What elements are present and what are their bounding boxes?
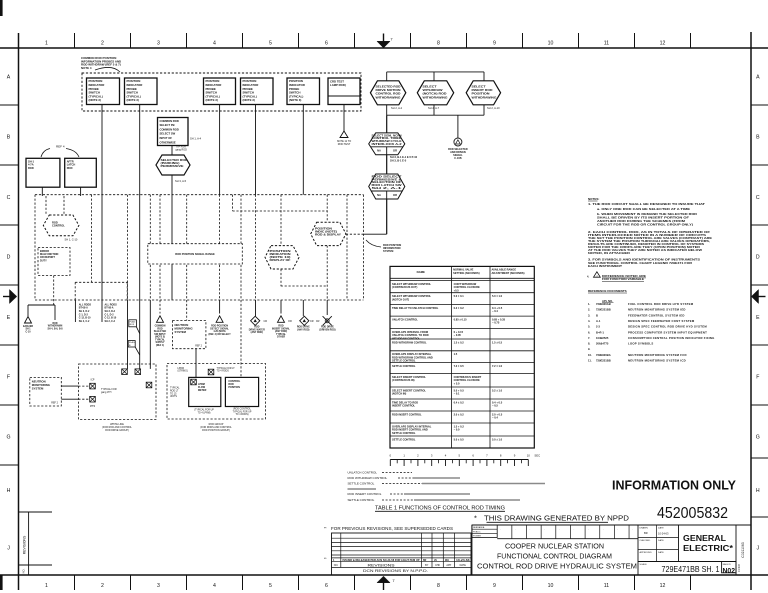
- svg-text:5.: 5.: [588, 325, 590, 329]
- svg-text:3: 3: [157, 41, 160, 47]
- svg-text:COOPER NUCLEAR STATION: COOPER NUCLEAR STATION: [505, 542, 604, 551]
- svg-text:B: B: [596, 313, 598, 317]
- svg-text:POSITION: POSITION: [472, 92, 490, 96]
- svg-text:(NOTE 3): (NOTE 3): [89, 98, 101, 102]
- svg-text:729E221BB: 729E221BB: [596, 359, 611, 363]
- svg-text:452005832: 452005832: [657, 505, 728, 522]
- svg-text:10: 10: [527, 454, 531, 458]
- svg-text:5: 5: [269, 41, 272, 47]
- svg-text:DCN REVISIONS BY N.P.P.D.: DCN REVISIONS BY N.P.P.D.: [363, 569, 428, 573]
- svg-text:LOOP SYMBOLS: LOOP SYMBOLS: [628, 342, 653, 346]
- svg-text:C0211063: C0211063: [741, 542, 745, 558]
- svg-text:NEUTRON MONITORING SYSTEM IED: NEUTRON MONITORING SYSTEM IED: [628, 308, 686, 312]
- svg-text:gang JTH: gang JTH: [101, 391, 112, 394]
- svg-text:WITHDRAWN: WITHDRAWN: [48, 325, 63, 328]
- svg-text:(ANY ROD): (ANY ROD): [297, 328, 309, 331]
- svg-text:G: G: [756, 435, 760, 441]
- svg-text:INTERLOCK A-2: INTERLOCK A-2: [372, 142, 403, 146]
- svg-text:0.85 ± 0.15: 0.85 ± 0.15: [454, 318, 468, 322]
- svg-text:SH 1: SH 1: [25, 329, 31, 331]
- svg-text:8: 8: [437, 583, 440, 589]
- svg-text:BR: BR: [423, 560, 427, 562]
- svg-text:N02: N02: [723, 568, 736, 575]
- svg-text:SYSTEM: SYSTEM: [175, 330, 187, 334]
- svg-text:+0.5: +0.5: [454, 288, 460, 292]
- svg-text:1: 1: [45, 583, 48, 589]
- svg-text:SETTLE CONTROL: SETTLE CONTROL: [392, 364, 416, 368]
- svg-text:FOR PREVIOUS REVISIONS, SEE SU: FOR PREVIOUS REVISIONS, SEE SUPERSEDED C…: [331, 526, 453, 531]
- svg-text:·: ·: [573, 528, 574, 531]
- svg-text:SYSTEM: SYSTEM: [383, 250, 393, 253]
- svg-text:2.0 ± 0.2: 2.0 ± 0.2: [454, 412, 465, 416]
- svg-text:·: ·: [515, 528, 516, 531]
- svg-text:CR: CR: [316, 320, 320, 323]
- svg-text:ELECTRIC*: ELECTRIC*: [683, 543, 734, 553]
- svg-text:(NOTCH IN): (NOTCH IN): [392, 392, 406, 396]
- svg-text:ISSUED & RELEASED PER ACN SO-2: ISSUED & RELEASED PER ACN SO-24-58 FOR L…: [343, 559, 420, 562]
- svg-text:(ANY ROD): (ANY ROD): [275, 330, 287, 333]
- svg-text:ROD DRIVE GROUP): ROD DRIVE GROUP): [105, 429, 129, 432]
- svg-text:REVISIONS: REVISIONS: [368, 563, 395, 567]
- svg-text:APP: APP: [446, 564, 451, 567]
- svg-text:OR: OR: [393, 193, 397, 197]
- svg-text:·: ·: [530, 528, 531, 531]
- svg-text:TYPICAL FOR LT: TYPICAL FOR LT: [217, 367, 236, 370]
- svg-text:SH 3, B-1 E-1 E-5 P-10: SH 3, B-1 E-1 E-5 P-10: [390, 155, 418, 159]
- svg-text:INSERT ROD: INSERT ROD: [472, 88, 493, 92]
- svg-text:CONTROL: CONTROL: [52, 224, 65, 228]
- svg-text:H: H: [7, 488, 11, 494]
- svg-text:NA: NA: [377, 193, 381, 197]
- svg-text:TIME DELAY TO UNLATCH CONTROL: TIME DELAY TO UNLATCH CONTROL: [392, 306, 439, 310]
- svg-text:5.0 ± 0.5: 5.0 ± 0.5: [454, 437, 465, 441]
- svg-text:5.0 ± 0.1: 5.0 ± 0.1: [454, 294, 465, 298]
- svg-text:SETTLE CONTROL: SETTLE CONTROL: [348, 498, 375, 502]
- svg-text:B: B: [7, 135, 11, 141]
- svg-text:ROD: ROD: [67, 166, 73, 170]
- svg-text:WITHDRAWING: WITHDRAWING: [472, 95, 497, 99]
- svg-text:SH 3, A-5: SH 3, A-5: [175, 179, 187, 183]
- svg-text:10.: 10.: [588, 353, 592, 357]
- svg-text:(TYPICAL FOR UP: (TYPICAL FOR UP: [194, 409, 214, 412]
- svg-text:DATE: DATE: [658, 539, 664, 542]
- svg-text:− 0.5: − 0.5: [492, 404, 498, 408]
- svg-text:PUBLIC: PUBLIC: [473, 531, 481, 533]
- svg-text:TYPICAL: TYPICAL: [170, 387, 180, 390]
- svg-text:4.: 4.: [587, 274, 589, 278]
- svg-text:12: 12: [660, 583, 666, 589]
- svg-text:POWER: POWER: [473, 536, 481, 538]
- svg-text:APPROVED: APPROVED: [640, 551, 653, 554]
- svg-text:PERMISSIVE: PERMISSIVE: [161, 165, 184, 168]
- svg-text:BOX: BOX: [130, 324, 135, 326]
- svg-text:6.: 6.: [588, 330, 590, 334]
- svg-text:TO 15: TO 15: [170, 393, 177, 395]
- svg-text:2: 2: [101, 41, 104, 47]
- svg-text:3: 3: [157, 583, 160, 589]
- svg-text:(ANY ROD): (ANY ROD): [251, 331, 263, 334]
- svg-text:SH 3, B-1 E-5: SH 3, B-1 E-5: [390, 158, 407, 162]
- svg-text:SELECTED: SELECTED: [154, 331, 167, 333]
- svg-text:1. THE ROD CIRCUIT SHALL BE D: 1. THE ROD CIRCUIT SHALL BE DESIGNED TO …: [588, 202, 705, 206]
- svg-text:B: B: [756, 135, 760, 141]
- svg-text:ROD DRIVE: ROD DRIVE: [321, 327, 334, 329]
- svg-text:EACH INSTRUMENT: EACH INSTRUMENT: [588, 264, 622, 268]
- svg-text:FUEL CONTROL ROD DRIVE HYD SYS: FUEL CONTROL ROD DRIVE HYD SYSTEM: [628, 302, 694, 306]
- svg-text:WITHDRAWING: WITHDRAWING: [376, 95, 401, 99]
- svg-text:4.: 4.: [588, 319, 590, 323]
- svg-text:SETTLE CONTROL: SETTLE CONTROL: [392, 437, 416, 441]
- svg-text:4-20 (NOTE: 4-20 (NOTE: [213, 330, 226, 333]
- svg-text:A: A: [7, 75, 11, 81]
- svg-text:DATE: DATE: [460, 564, 467, 567]
- svg-text:2-3: 2-3: [596, 325, 600, 329]
- svg-text:gang: gang: [90, 406, 96, 408]
- svg-text:COMMON ROD: COMMON ROD: [160, 119, 179, 123]
- svg-text:11: 11: [604, 583, 609, 589]
- svg-text:SH 1, C-10: SH 1, C-10: [65, 238, 78, 242]
- svg-text:729E900AB: 729E900AB: [596, 302, 611, 306]
- svg-text:a. ONLY ONE ROD CAN BE SELECT: a. ONLY ONE ROD CAN BE SELECTED AT A TIM…: [597, 207, 690, 211]
- svg-text:DISPLAY OF: DISPLAY OF: [270, 259, 292, 262]
- svg-text:5.0 ± 1.0: 5.0 ± 1.0: [492, 437, 503, 441]
- svg-text:E: E: [756, 315, 760, 321]
- svg-text:OTHERWISE: OTHERWISE: [160, 140, 176, 144]
- svg-text:10-24-63: 10-24-63: [456, 559, 471, 562]
- svg-text:·: ·: [588, 528, 589, 531]
- svg-text:(CONTINUOUS OUT): (CONTINUOUS OUT): [392, 285, 417, 289]
- svg-text:SUPPLY: SUPPLY: [155, 342, 165, 344]
- svg-text:COMMON ROD: COMMON ROD: [160, 127, 179, 131]
- svg-text:·: ·: [632, 528, 633, 531]
- svg-text:METER: METER: [198, 389, 207, 392]
- svg-text:ROD WITHDRAW CONTROL: ROD WITHDRAW CONTROL: [348, 476, 388, 480]
- svg-text:COMMON: COMMON: [155, 326, 166, 328]
- svg-text:SH 2, C-2: SH 2, C-2: [79, 320, 90, 323]
- svg-text:SETTLE CONTROL: SETTLE CONTROL: [348, 482, 375, 486]
- svg-text:7.2 ± 0.5: 7.2 ± 0.5: [454, 364, 465, 368]
- svg-text:DATE: DATE: [658, 551, 664, 554]
- svg-text:ROD LT: ROD LT: [170, 390, 179, 392]
- svg-text:FCD 8: FCD 8: [737, 564, 741, 572]
- svg-text:4: 4: [213, 41, 216, 47]
- svg-text:7.2 ± 1.0: 7.2 ± 1.0: [492, 364, 503, 368]
- svg-text:DRIVE WATER: DRIVE WATER: [249, 328, 265, 331]
- svg-text:OTHER: OTHER: [277, 337, 285, 339]
- svg-text:C: C: [7, 195, 11, 201]
- svg-text:9: 9: [493, 41, 496, 47]
- svg-text:NOTE 4: NOTE 4: [81, 66, 92, 70]
- svg-text:·: ·: [617, 528, 618, 531]
- svg-text:TABLE 1 FUNCTIONS OF CONTROL R: TABLE 1 FUNCTIONS OF CONTROL ROD TIMING: [375, 506, 505, 512]
- svg-text:NEUTRON MONITORING SYSTEM FCD: NEUTRON MONITORING SYSTEM FCD: [628, 353, 687, 357]
- svg-text:ROD WITHDRAW CONTROL: ROD WITHDRAW CONTROL: [392, 340, 427, 344]
- svg-text:NEBRASKA: NEBRASKA: [473, 526, 485, 529]
- svg-text:REFERENCE DOCUMENTS: REFERENCE DOCUMENTS: [588, 289, 627, 293]
- svg-text:− 0.75: − 0.75: [492, 321, 500, 325]
- svg-text:D: D: [756, 255, 760, 261]
- svg-text:C: C: [756, 195, 760, 201]
- svg-text:THIS DRAWING GENERATED BY NPPD: THIS DRAWING GENERATED BY NPPD: [484, 514, 630, 523]
- svg-text:SH 1, A-4: SH 1, A-4: [190, 137, 202, 141]
- svg-text:5: 5: [269, 583, 272, 589]
- svg-text:(ROD CONTROL: (ROD CONTROL: [233, 409, 251, 411]
- svg-text:SEC: SEC: [534, 454, 540, 458]
- svg-text:1.5 ± 0.2: 1.5 ± 0.2: [454, 340, 465, 344]
- svg-text:(NOTE 3): (NOTE 3): [206, 98, 218, 102]
- svg-text:FEEDWATER CONTROL SYSTEM IED: FEEDWATER CONTROL SYSTEM IED: [628, 313, 685, 317]
- svg-text:POSITION: POSITION: [228, 386, 240, 389]
- svg-text:FLAG: FLAG: [129, 341, 135, 344]
- svg-text:ROD: ROD: [28, 166, 34, 170]
- svg-text:REF 2: REF 2: [51, 402, 58, 405]
- svg-text:11.: 11.: [588, 359, 592, 363]
- svg-text:4: 4: [213, 583, 216, 589]
- svg-text:G: G: [6, 435, 10, 441]
- svg-text:SELECT SW: SELECT SW: [160, 132, 176, 136]
- svg-text:SCALE: SCALE: [640, 563, 648, 566]
- svg-text:UNITS: UNITS: [170, 396, 177, 398]
- svg-text:1.5 ± 0.5: 1.5 ± 0.5: [492, 340, 503, 344]
- svg-text:10: 10: [548, 583, 554, 589]
- svg-text:CR: CR: [310, 320, 314, 323]
- svg-text:TYPICAL: TYPICAL: [276, 333, 287, 336]
- svg-text:206&4775: 206&4775: [596, 342, 609, 346]
- svg-text:*: *: [474, 514, 477, 523]
- svg-text:ROD: ROD: [254, 327, 259, 329]
- svg-text:A-1: A-1: [596, 319, 601, 323]
- svg-text:NOTES:: NOTES:: [588, 197, 599, 201]
- svg-text:·: ·: [500, 528, 501, 531]
- svg-text:D: D: [7, 255, 11, 261]
- svg-text:11: 11: [604, 41, 609, 47]
- svg-text:UNLATCH CONTROL: UNLATCH CONTROL: [348, 471, 378, 475]
- svg-text:·: ·: [544, 528, 545, 531]
- svg-text:6: 6: [325, 41, 328, 47]
- svg-text:(REF 2) OR SELECT: (REF 2) OR SELECT: [209, 334, 232, 336]
- svg-text:BY: BY: [425, 564, 429, 567]
- svg-text:SH 2, A-10: SH 2, A-10: [487, 106, 500, 110]
- svg-text:DRIVE MOTION: DRIVE MOTION: [376, 88, 401, 92]
- svg-text:B=R-1: B=R-1: [596, 330, 604, 334]
- svg-text:DESIGN SPEC FEEDWATER CONT SYS: DESIGN SPEC FEEDWATER CONT SYSTEM: [628, 319, 695, 323]
- svg-text:ROD POSITION SIGNAL RANGE: ROD POSITION SIGNAL RANGE: [175, 252, 215, 256]
- svg-text:ADJUSTMENT (SECONDS): ADJUSTMENT (SECONDS): [492, 271, 525, 275]
- svg-text:SELECT PB: SELECT PB: [160, 123, 175, 127]
- svg-text:12: 12: [660, 41, 666, 47]
- svg-text:(NOTE 3): (NOTE 3): [289, 98, 301, 102]
- svg-text:0.2 ± 0.2: 0.2 ± 0.2: [454, 306, 465, 310]
- svg-text:SH 4, B-6, B-8: SH 4, B-6, B-8: [47, 327, 63, 330]
- svg-text:INSERT SIGNAL: INSERT SIGNAL: [272, 327, 291, 330]
- svg-text:UNLATCH CONTROL: UNLATCH CONTROL: [392, 318, 418, 322]
- svg-text:TYPICAL: TYPICAL: [155, 338, 166, 341]
- svg-text:− 0.4: − 0.4: [492, 416, 498, 420]
- svg-text:·: ·: [603, 528, 604, 531]
- svg-text:729E221BB: 729E221BB: [596, 308, 611, 312]
- svg-text:WITHDRAW: WITHDRAW: [423, 88, 444, 92]
- svg-text:DUTY: DUTY: [40, 259, 47, 262]
- svg-text:6: 6: [325, 583, 328, 589]
- svg-text:ROD INSERT CONTROL: ROD INSERT CONTROL: [348, 492, 382, 496]
- svg-text:WH: WH: [445, 560, 449, 562]
- svg-text:(NOTE 3): (NOTE 3): [127, 98, 139, 102]
- svg-text:INPUT OF: INPUT OF: [160, 136, 173, 140]
- svg-text:1.: 1.: [588, 302, 590, 306]
- svg-text:SYSTEM: SYSTEM: [32, 387, 44, 391]
- svg-text:LPRM: LPRM: [178, 368, 184, 370]
- svg-text:(NOTE 5): (NOTE 5): [155, 337, 165, 339]
- svg-text:5.0 ± 1.0: 5.0 ± 1.0: [492, 294, 503, 298]
- svg-text:NA: NA: [377, 149, 381, 153]
- svg-text:PROCESS COMPUTER SYSTEM INPUT: PROCESS COMPUTER SYSTEM INPUT EQUIPMENT: [628, 330, 707, 334]
- svg-text:GENERAL: GENERAL: [683, 533, 726, 543]
- svg-text:CHECKED: CHECKED: [640, 540, 651, 542]
- svg-text:TYPICAL FOR UP: TYPICAL FOR UP: [233, 410, 252, 413]
- svg-text:SELECTED ROD: SELECTED ROD: [376, 85, 401, 89]
- svg-text:ROD TEST: ROD TEST: [338, 143, 351, 146]
- svg-text:2: 2: [101, 583, 104, 589]
- svg-text:REVISIONS: REVISIONS: [23, 535, 27, 554]
- svg-text:TO 4 LPRM): TO 4 LPRM): [198, 412, 211, 414]
- svg-text:SETTING (SECONDS): SETTING (SECONDS): [453, 271, 480, 275]
- svg-text:SH 2, A-1: SH 2, A-1: [372, 186, 403, 190]
- svg-text:F: F: [756, 375, 759, 381]
- svg-text:ROD INSERT CONTROL: ROD INSERT CONTROL: [392, 412, 422, 416]
- svg-text:gang ROD: gang ROD: [176, 149, 188, 152]
- svg-text:− 0.1: − 0.1: [454, 392, 460, 396]
- svg-text:(NOTCH) ROD: (NOTCH) ROD: [423, 92, 447, 96]
- svg-text:− 0.4: − 0.4: [492, 309, 498, 313]
- svg-text:J: J: [7, 546, 10, 552]
- svg-text:DATE: DATE: [658, 527, 664, 530]
- svg-text:− 0.05: − 0.05: [454, 333, 462, 337]
- svg-text:(STRING): (STRING): [178, 371, 188, 373]
- svg-text:ROD POSITION GROUP): ROD POSITION GROUP): [202, 429, 230, 432]
- svg-text:FUNCTIONAL CONTROL DIAGRAM: FUNCTIONAL CONTROL DIAGRAM: [497, 552, 612, 561]
- svg-text:OR: OR: [288, 320, 292, 323]
- svg-text:MADE BY: MADE BY: [723, 563, 732, 566]
- svg-text:7.: 7.: [588, 336, 590, 340]
- svg-text:FLAG: FLAG: [130, 321, 136, 324]
- svg-text:EARLIER: EARLIER: [23, 325, 33, 328]
- svg-text:CONTROL ROD: CONTROL ROD: [376, 92, 401, 96]
- svg-text:1.5: 1.5: [454, 352, 458, 356]
- svg-text:10-24-63: 10-24-63: [658, 532, 669, 536]
- svg-text:0.4 ± 0.2: 0.4 ± 0.2: [454, 400, 465, 404]
- svg-text:DETECT SIGNAL: DETECT SIGNAL: [210, 327, 229, 330]
- svg-text:DESIGN SPEC CONTROL ROD DRIVE: DESIGN SPEC CONTROL ROD DRIVE HYD SYSTEM: [628, 325, 707, 329]
- svg-text:104B2525: 104B2525: [596, 336, 609, 340]
- svg-text:CONTROL ROD DRIVE HYDRAULIC SY: CONTROL ROD DRIVE HYDRAULIC SYSTEM: [477, 562, 637, 571]
- svg-text:BR: BR: [644, 531, 648, 535]
- svg-text:·: ·: [559, 528, 560, 531]
- svg-text:(REF 1): (REF 1): [156, 345, 164, 347]
- svg-text:CR: CR: [264, 320, 268, 323]
- svg-text:J: J: [757, 546, 760, 552]
- svg-text:2.: 2.: [588, 308, 590, 312]
- svg-text:(NOTE 3): (NOTE 3): [243, 98, 255, 102]
- svg-text:3.: 3.: [588, 313, 590, 317]
- svg-text:ROD: ROD: [278, 326, 283, 328]
- svg-text:REF 2: REF 2: [195, 345, 202, 348]
- svg-text:SH 2, A-7: SH 2, A-7: [428, 106, 440, 110]
- svg-text:SH 2, A-2: SH 2, A-2: [391, 106, 403, 110]
- svg-text:− 0.0: − 0.0: [454, 428, 460, 432]
- svg-text:NAME: NAME: [417, 270, 425, 274]
- svg-text:(NOTCH OUT): (NOTCH OUT): [392, 297, 409, 301]
- svg-text:NEUTRON MONITORING SYSTEM ICD: NEUTRON MONITORING SYSTEM ICD: [628, 359, 686, 363]
- svg-text:8.: 8.: [588, 342, 590, 346]
- svg-text:CHK: CHK: [435, 564, 440, 567]
- svg-text:SH 2, C-2: SH 2, C-2: [105, 320, 116, 323]
- svg-text:REF 4: REF 4: [56, 145, 65, 149]
- svg-text:WITHDRAW CONTROL: WITHDRAW CONTROL: [392, 336, 421, 340]
- svg-text:WITHDRAWING: WITHDRAWING: [423, 95, 448, 99]
- svg-text:JS: JS: [434, 560, 437, 562]
- svg-text:NOTED, IN ATTACHED: NOTED, IN ATTACHED: [588, 251, 630, 255]
- svg-text:TO 4 RODS): TO 4 RODS): [235, 414, 248, 416]
- svg-text:(CONTINUOUS IN): (CONTINUOUS IN): [392, 378, 415, 382]
- svg-text:ROD POSITION: ROD POSITION: [211, 326, 228, 328]
- svg-text:SELECT: SELECT: [423, 85, 437, 89]
- svg-text:DRAWN: DRAWN: [640, 527, 649, 530]
- svg-text:C-10: C-10: [26, 331, 32, 333]
- svg-text:OR: OR: [393, 149, 397, 153]
- svg-text:SW INPUT: SW INPUT: [154, 334, 166, 336]
- svg-text:INFORMATION ONLY: INFORMATION ONLY: [612, 479, 737, 493]
- svg-text:CIRCUIT FOR THE ROD OR CONTROL: CIRCUIT FOR THE ROD OR CONTROL GROUP ONL…: [597, 223, 693, 227]
- svg-text:E: E: [7, 315, 11, 321]
- svg-text:LAMP ROD): LAMP ROD): [330, 83, 346, 87]
- svg-text:INSERT CONTROL: INSERT CONTROL: [392, 404, 415, 408]
- svg-text:SETTLE CONTROL: SETTLE CONTROL: [392, 431, 416, 435]
- svg-text:(DRIVEN ROD): (DRIVEN ROD): [319, 329, 335, 331]
- svg-text:9.: 9.: [588, 347, 590, 351]
- svg-text:SELECT: SELECT: [472, 85, 486, 89]
- svg-text:ROD: ROD: [157, 328, 162, 330]
- svg-text:H: H: [756, 488, 760, 494]
- svg-text:8: 8: [437, 41, 440, 47]
- svg-text:5.2 ± 1.0: 5.2 ± 1.0: [492, 388, 503, 392]
- svg-text:ICP: ICP: [91, 380, 95, 382]
- svg-text:+ 5.0: + 5.0: [454, 381, 460, 385]
- svg-text:729E471BB SH. 1: 729E471BB SH. 1: [662, 564, 720, 574]
- svg-text:TO 4 RODS: TO 4 RODS: [217, 371, 230, 373]
- svg-text:NO.: NO.: [334, 564, 339, 567]
- svg-text:C-10B: C-10B: [454, 157, 461, 160]
- svg-text:A: A: [756, 75, 760, 81]
- svg-text:10: 10: [548, 41, 554, 47]
- svg-text:ROD & DISPLAY: ROD & DISPLAY: [315, 234, 341, 237]
- svg-text:ROD: ROD: [52, 323, 57, 325]
- svg-text:SETTLE CONTROL: SETTLE CONTROL: [392, 359, 416, 363]
- svg-text:CONSUMPTION CENTRAL POSITION I: CONSUMPTION CENTRAL POSITION INDICATOR F…: [628, 336, 715, 340]
- svg-text:F: F: [7, 375, 10, 381]
- svg-text:1: 1: [45, 41, 48, 47]
- svg-text:ROD DRIVE: ROD DRIVE: [297, 327, 310, 329]
- svg-text:729E900BA: 729E900BA: [596, 353, 611, 357]
- svg-text:NO.: NO.: [22, 568, 26, 573]
- svg-text:9: 9: [493, 583, 496, 589]
